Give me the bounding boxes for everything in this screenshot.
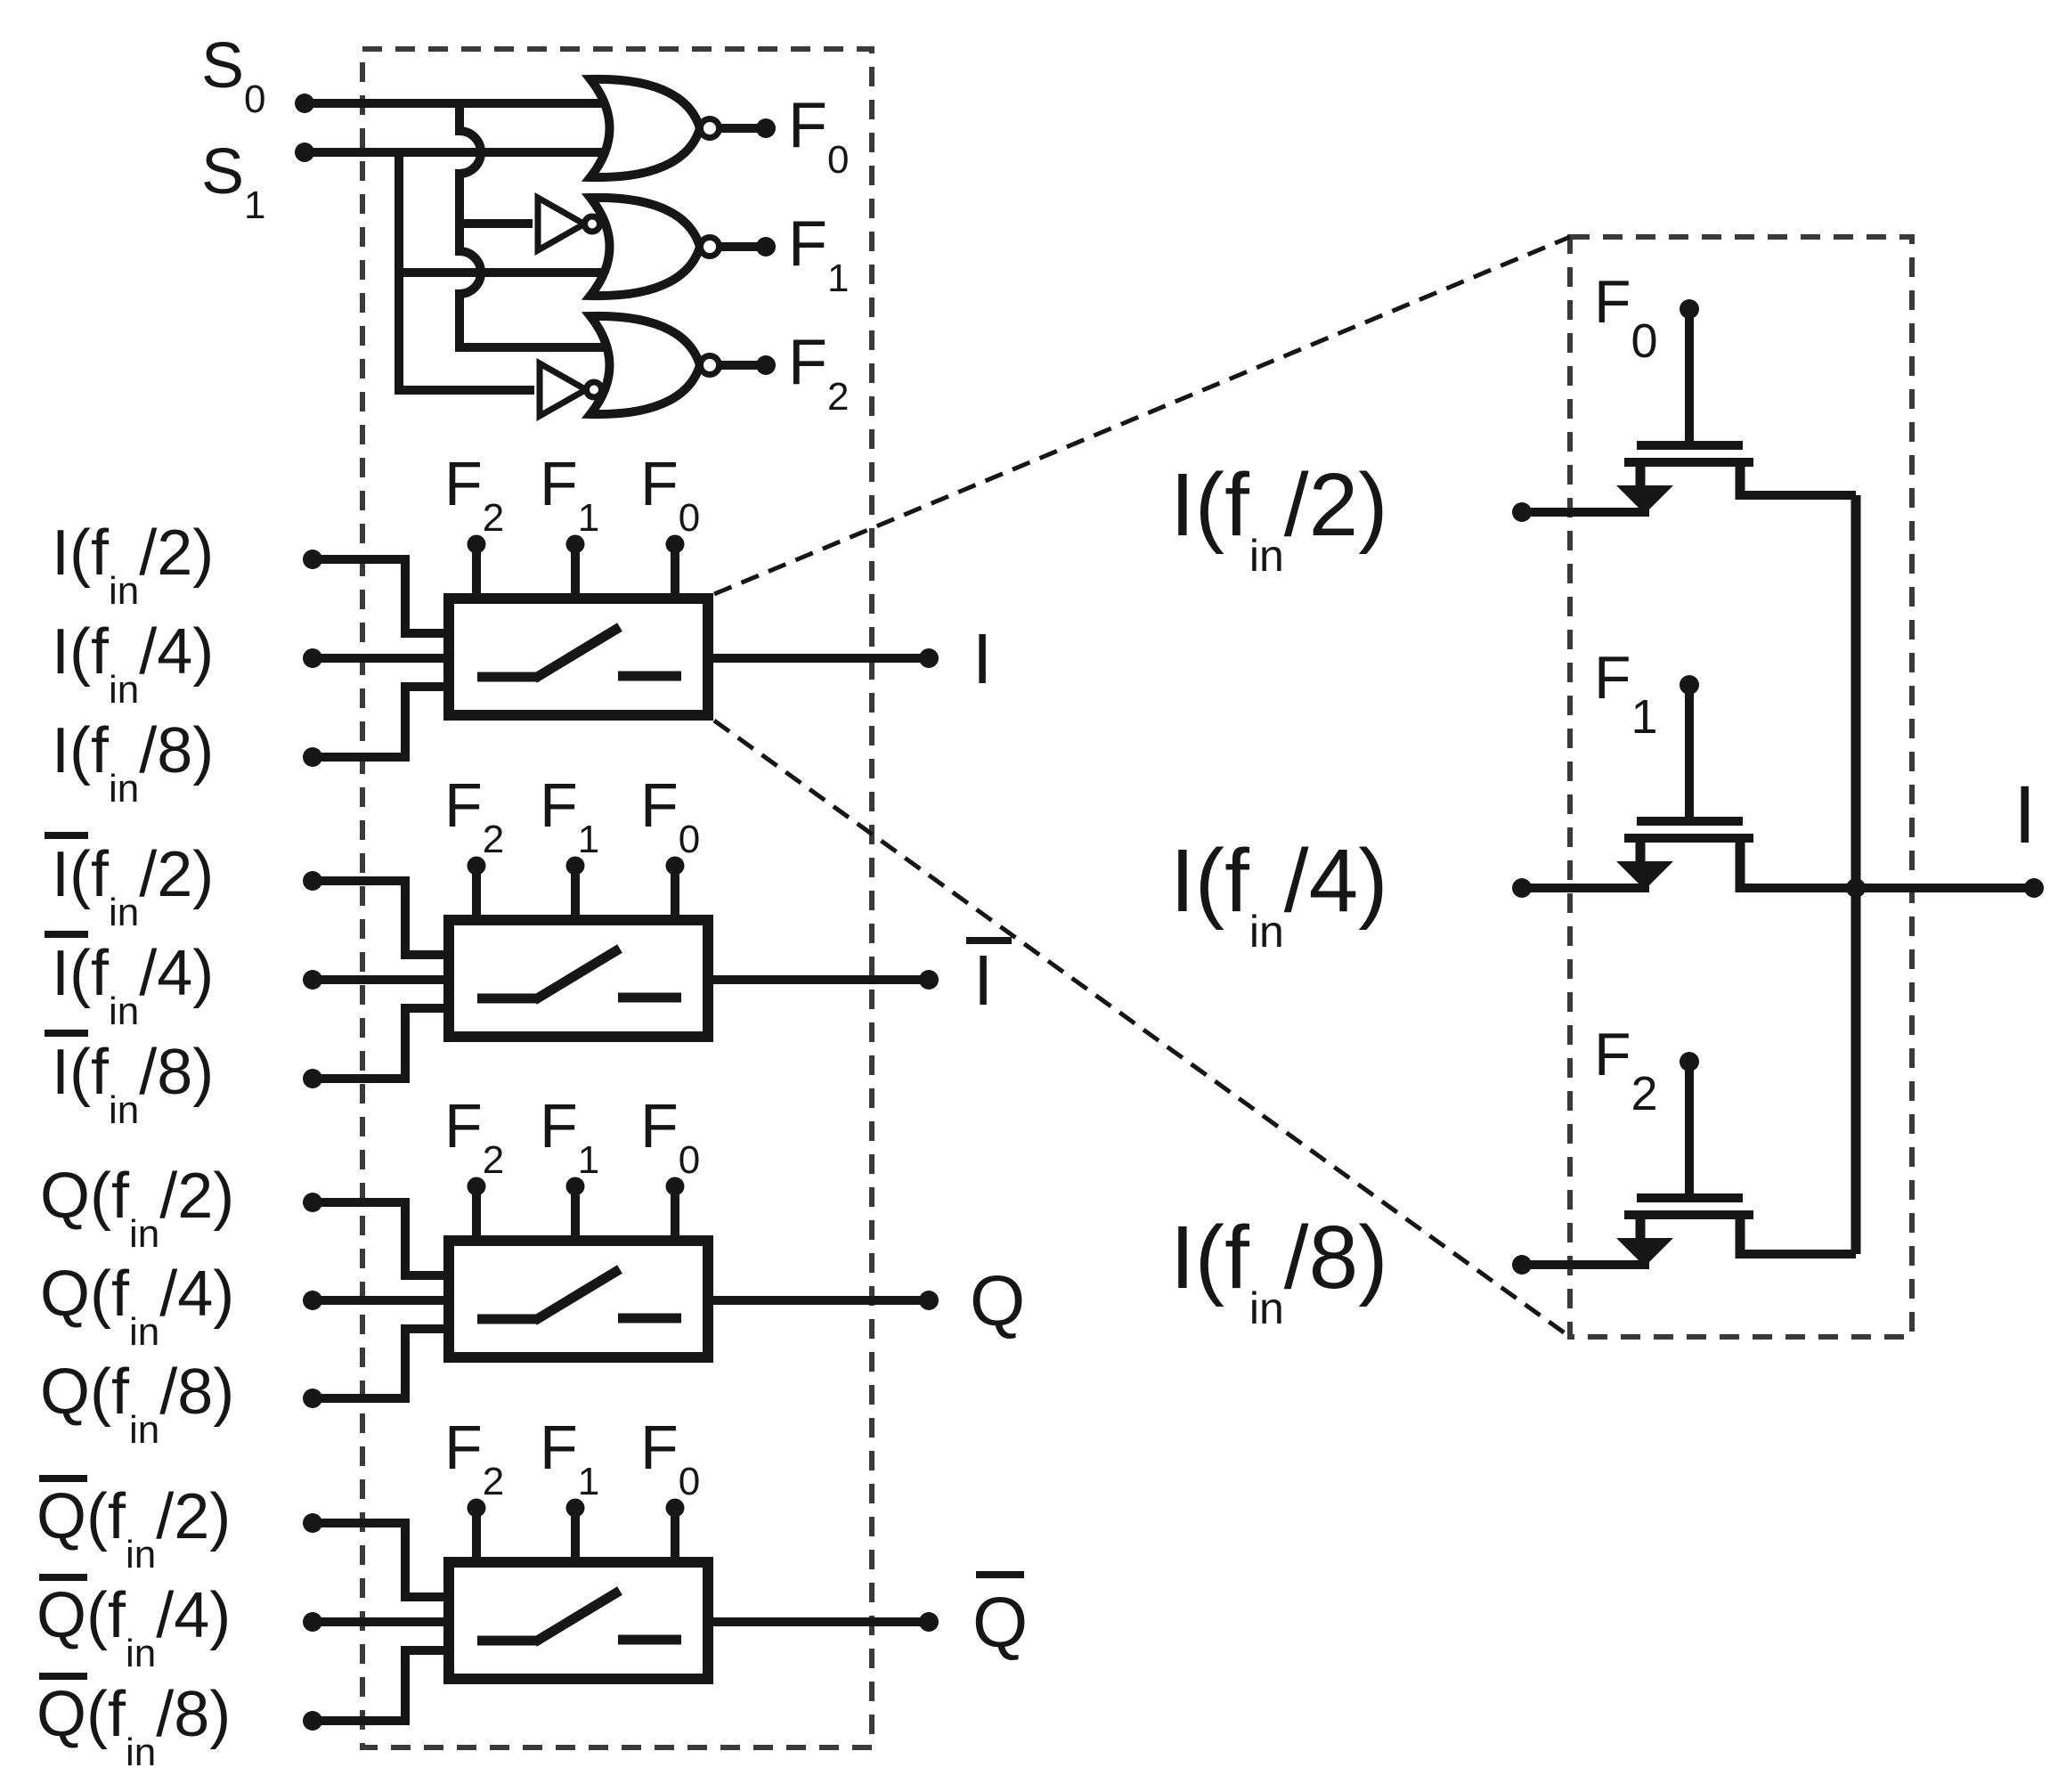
pin F1 of mux Ibar xyxy=(571,866,580,926)
svg-text:I: I xyxy=(2013,770,2037,860)
wire input 3 of mux Q xyxy=(313,1329,454,1398)
svg-text:Q: Q xyxy=(972,1583,1028,1662)
NOR gate U2 xyxy=(590,198,700,296)
node detail output I xyxy=(2024,878,2044,898)
transistor M3 source leg xyxy=(1636,1219,1646,1242)
pin F0 of mux I xyxy=(671,544,679,605)
node F1 output xyxy=(756,237,776,257)
transistor M3 drain leg xyxy=(1736,1219,1745,1258)
wire input 2 of mux Qbar xyxy=(313,1617,454,1626)
transistor M3 source arrow xyxy=(1616,1238,1673,1267)
wire source input M2 xyxy=(1522,884,1649,892)
svg-text:I: I xyxy=(973,941,993,1020)
label Ibar(fin/4) xyxy=(45,931,88,938)
transistor M1 gate lead xyxy=(1685,309,1694,445)
inverter U5 xyxy=(540,363,586,416)
pin F1 of mux Q xyxy=(571,1186,580,1247)
pin F2 of mux Ibar xyxy=(472,866,481,926)
node input 3 of mux Q xyxy=(303,1389,322,1408)
wire input 1 of mux Q xyxy=(313,1202,454,1275)
label Qbar(fin/2) xyxy=(39,1475,87,1482)
pin F0 of mux Qbar xyxy=(671,1508,679,1568)
pin F0 of mux Ibar xyxy=(671,866,679,926)
transistor M2 source arrow xyxy=(1616,861,1673,890)
pin F1 of mux I xyxy=(571,544,580,605)
node input 3 of mux Ibar xyxy=(303,1069,322,1088)
wire input 3 of mux Qbar xyxy=(313,1650,454,1721)
transistor M2 gate lead xyxy=(1685,685,1694,821)
transistor M2 source leg xyxy=(1636,843,1646,865)
wire input 3 of mux Ibar xyxy=(313,1008,454,1079)
transistor M3 gate bar xyxy=(1637,1193,1743,1202)
wire NOR output F1 xyxy=(720,242,766,251)
wire S0 branch to inverter U4 xyxy=(455,219,533,228)
pin F0 of mux Q xyxy=(671,1186,679,1247)
wire source input M1 xyxy=(1522,508,1649,517)
transistor M3 gate lead xyxy=(1685,1062,1694,1198)
node input 1 of mux I xyxy=(303,550,322,569)
wire source input M3 xyxy=(1522,1260,1649,1269)
mux switch box Qbar xyxy=(449,1562,708,1679)
wire S1 branch vertical xyxy=(394,152,403,395)
switch symbol of mux Ibar xyxy=(477,994,536,1004)
transistor M1 channel bar xyxy=(1624,458,1753,467)
node input 3 of mux Qbar xyxy=(303,1711,322,1731)
node source input M2 xyxy=(1512,878,1532,898)
wire S0 branch to NOR U3 upper input xyxy=(455,343,632,352)
node input 2 of mux Q xyxy=(303,1291,322,1310)
inverter U4 xyxy=(538,198,584,250)
right dashed detail boundary xyxy=(1570,237,1912,1337)
transistor M2 gate bar xyxy=(1637,817,1743,826)
wire input 1 of mux I xyxy=(313,559,454,633)
node source input M3 xyxy=(1512,1255,1532,1275)
svg-text:Q: Q xyxy=(970,1261,1025,1340)
wire output Q xyxy=(713,1296,929,1305)
transistor M1 gate bar xyxy=(1637,441,1743,450)
wire input 3 of mux I xyxy=(313,687,454,757)
pin F2 of mux Q xyxy=(472,1186,481,1247)
wire S0 xyxy=(305,99,623,108)
node input 2 of mux I xyxy=(303,648,322,668)
mux switch box Q xyxy=(449,1241,708,1357)
label Qbar(fin/4) xyxy=(39,1574,87,1581)
node output Qbar xyxy=(919,1612,939,1632)
wire S1 branch to inverter U5 xyxy=(394,386,534,395)
transistor M1 source arrow xyxy=(1616,485,1673,514)
node input 2 of mux Qbar xyxy=(303,1612,322,1632)
mux switch box I xyxy=(449,599,708,715)
wire input 2 of mux Q xyxy=(313,1296,454,1305)
wire input 1 of mux Qbar xyxy=(313,1523,454,1597)
transistor M2 gate node xyxy=(1680,675,1699,695)
node input 1 of mux Qbar xyxy=(303,1513,322,1533)
mux switch box Ibar xyxy=(449,920,708,1037)
node output I xyxy=(919,648,939,668)
wire output I xyxy=(713,654,929,663)
wire NOR output F2 xyxy=(720,361,766,370)
label Ibar(fin/8) xyxy=(45,1030,88,1037)
node input 1 of mux Q xyxy=(303,1193,322,1212)
wire S0 branch vertical with hops xyxy=(460,99,481,352)
wire detail output I xyxy=(1856,884,2034,892)
wire input 1 of mux Ibar xyxy=(313,881,454,955)
wire NOR output F0 xyxy=(720,124,766,133)
node output Q xyxy=(919,1291,939,1310)
node F2 output xyxy=(756,355,776,375)
NOR gate U3 xyxy=(590,316,700,414)
dashed callout line lower xyxy=(714,721,1570,1337)
wire input 2 of mux Ibar xyxy=(313,975,454,984)
node rail junction xyxy=(1846,878,1866,898)
wire S1 branch to NOR U2 lower input xyxy=(399,268,632,277)
node input 3 of mux I xyxy=(303,747,322,767)
wire common drain rail xyxy=(1851,495,1861,1254)
transistor M1 source leg xyxy=(1636,467,1646,489)
transistor M1 drain leg xyxy=(1736,467,1745,500)
wire output Ibar xyxy=(713,975,929,984)
transistor M2 drain leg xyxy=(1736,843,1745,892)
label Qbar(fin/8) xyxy=(39,1673,87,1680)
node output Ibar xyxy=(919,970,939,990)
switch symbol of mux I xyxy=(477,672,536,682)
label Ibar(fin/2) xyxy=(45,832,88,839)
transistor M1 gate node xyxy=(1680,299,1699,319)
transistor M3 gate node xyxy=(1680,1052,1699,1071)
NOR gate U1 xyxy=(590,79,700,177)
wire S1 xyxy=(305,148,623,157)
pin F1 of mux Qbar xyxy=(571,1508,580,1568)
pin F2 of mux Qbar xyxy=(472,1508,481,1568)
switch symbol of mux Q xyxy=(477,1315,536,1324)
node F0 output xyxy=(756,118,776,138)
transistor M3 channel bar xyxy=(1624,1210,1753,1219)
dashed callout line upper xyxy=(714,237,1570,594)
wire drain M1 to rail xyxy=(1736,491,1856,500)
wire drain M2 to output xyxy=(1736,884,1856,892)
node input 2 of mux Ibar xyxy=(303,970,322,990)
node input 1 of mux Ibar xyxy=(303,871,322,891)
wire drain M3 to rail xyxy=(1736,1250,1856,1258)
transistor M2 channel bar xyxy=(1624,834,1753,843)
node S1 input xyxy=(295,143,314,162)
left dashed block boundary xyxy=(362,49,872,1747)
wire output Qbar xyxy=(713,1617,929,1626)
node source input M1 xyxy=(1512,502,1532,522)
switch symbol of mux Qbar xyxy=(477,1636,536,1646)
svg-text:I: I xyxy=(972,619,992,698)
wire input 2 of mux I xyxy=(313,654,454,663)
pin F2 of mux I xyxy=(472,544,481,605)
node S0 input xyxy=(295,94,314,113)
